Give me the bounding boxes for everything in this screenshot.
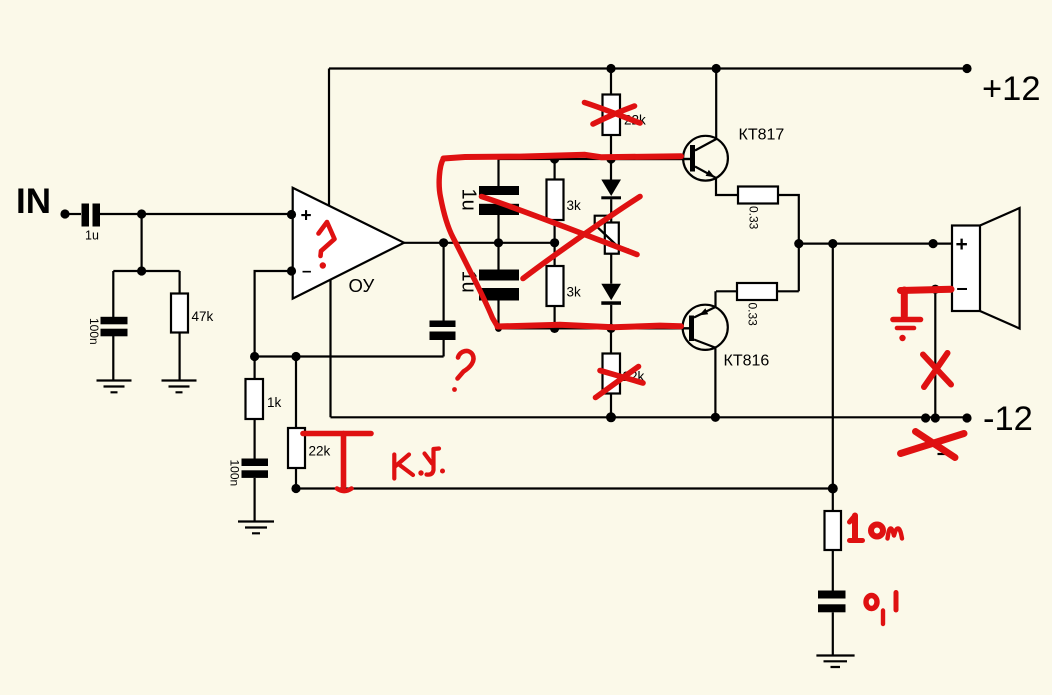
wire - input to feedback node: [255, 271, 292, 357]
wire speaker minus to -12 rail: [935, 289, 952, 417]
wire 3k bottom to base line: [553, 306, 555, 328]
svg-text:+: +: [301, 206, 312, 227]
svg-text:1u: 1u: [85, 229, 99, 243]
wire 0.33 top to output: [778, 195, 799, 244]
wire 1 Ohm to 0,1 cap: [832, 550, 834, 591]
node Q1 rail junction: [712, 64, 721, 73]
wire IN to C1: [65, 213, 81, 215]
node 3k bottom junction: [550, 324, 559, 333]
diode D1: [610, 159, 612, 180]
capacitor C feedback (no label): [430, 321, 456, 328]
node rail junction pair: [921, 413, 930, 422]
svg-text:1u: 1u: [458, 189, 480, 211]
svg-text:КТ816: КТ816: [724, 353, 770, 370]
red stroke over speaker minus wire: [901, 289, 952, 290]
RED-ANNOT: [303, 103, 964, 625]
svg-text:0.33: 0.33: [746, 303, 760, 327]
wire to 100n and 47k: [113, 271, 179, 380]
capacitor C 100n feedback: [242, 459, 269, 467]
node IN terminal: [60, 209, 69, 218]
svg-text:3k: 3k: [567, 198, 582, 213]
wire 100n to ground: [254, 478, 256, 521]
red X stroke middle 1: [482, 197, 638, 255]
svg-text:100n: 100n: [87, 318, 101, 345]
node Q2 rail junction: [711, 413, 720, 422]
red loop left side: [439, 159, 497, 327]
svg-text:0.33: 0.33: [747, 206, 761, 230]
wire output to feedback cap: [443, 243, 445, 357]
red question mark at feedback cap: [458, 351, 474, 379]
svg-text:+: +: [956, 233, 968, 256]
node diode chain bottom: [606, 324, 615, 333]
resistor R 0.33 bottom: [737, 283, 777, 300]
resistor R 47k: [171, 294, 188, 333]
node op-amp - input: [287, 266, 296, 275]
wire output row: [799, 243, 952, 245]
red stroke along bottom base line: [498, 325, 682, 328]
wire C1 to op-amp + input: [100, 213, 292, 215]
transistor Q2 KT816: [683, 305, 728, 350]
resistor R 3k bottom: [547, 266, 564, 306]
svg-text:47k: 47k: [192, 309, 214, 324]
node junction RC: [137, 266, 146, 275]
wire bottom base line: [499, 327, 692, 329]
node diode chain top: [606, 154, 615, 163]
resistor R 3k top: [553, 159, 555, 180]
resistor R 22k feedback: [295, 357, 297, 429]
red X over speaker minus wire: [923, 355, 951, 385]
red T gain mark: [303, 431, 371, 437]
transistor Q1 KT817: [715, 69, 717, 140]
node +12 terminal: [962, 64, 971, 73]
node 3k top junction: [550, 154, 559, 163]
node output down junction: [828, 239, 837, 248]
resistor R 1 Ohm: [832, 489, 834, 512]
svg-text:22k: 22k: [309, 444, 331, 459]
node 3k mid junction: [550, 238, 559, 247]
red text 0,1: [866, 596, 877, 609]
svg-text:+12: +12: [982, 70, 1041, 108]
speaker LS1: [952, 226, 980, 312]
op-amp U1 OU: [293, 188, 404, 299]
node output to 1u caps: [494, 238, 503, 247]
svg-text:100n: 100n: [228, 460, 242, 487]
diode D2: [601, 284, 621, 301]
wire 0.33 bottom to Q2 emitter: [716, 291, 738, 307]
red question mark in op-amp: [319, 222, 335, 256]
svg-text:IN: IN: [16, 182, 51, 221]
node small corner bottom: [495, 325, 502, 332]
wire bottom feedback line: [296, 487, 833, 489]
node +12 rail (top supply wire): [329, 67, 967, 69]
wire trimmer to D2: [610, 254, 612, 284]
node feedback junction A: [250, 352, 259, 361]
node output junction at 0.33: [794, 239, 803, 248]
wire 0.33 bottom to output: [777, 244, 799, 292]
red X over 22k top: [585, 103, 641, 124]
svg-text:–: –: [302, 261, 311, 280]
svg-text:-12: -12: [983, 400, 1033, 438]
node -12 rail (bottom supply wire): [331, 416, 968, 418]
red X over 22k bottom: [596, 367, 639, 398]
node -12 terminal: [962, 413, 971, 422]
node feedback junction B: [291, 352, 300, 361]
wire top base line: [499, 158, 692, 160]
node speaker plus mystery junction: [929, 239, 938, 248]
resistor R 1k: [254, 357, 256, 380]
node 22k bottom rail junction: [606, 412, 616, 422]
wire op-amp output: [404, 242, 555, 244]
node op-amp + input: [287, 210, 296, 219]
ground under 100n input: [97, 381, 132, 393]
wire feedback node line: [255, 355, 444, 357]
red text K.U.: [392, 455, 396, 479]
node feedback bottom junction: [291, 484, 300, 493]
node junction input: [137, 209, 146, 218]
node bottom feedback junction at 1 Ohm: [828, 484, 838, 494]
wire D1 to trimmer: [610, 199, 612, 222]
node 22k top rail junction: [606, 64, 615, 73]
red text 1 Ohm: [852, 516, 858, 540]
trimmer RP (crossed out): [605, 223, 619, 254]
node speaker minus junction: [931, 285, 940, 294]
svg-text:1k: 1k: [267, 395, 282, 410]
capacitor C 100n input: [101, 317, 128, 325]
capacitor C 1u bottom: [479, 270, 519, 281]
capacitor C 1u input: [82, 204, 90, 227]
wire op-amp V- pin to -12 rail: [329, 280, 331, 417]
svg-text:КТ817: КТ817: [739, 127, 785, 144]
resistor R 22k bottom (crossed out): [610, 328, 612, 353]
red ground symbol: [893, 317, 921, 323]
svg-text:3k: 3k: [567, 285, 582, 300]
resistor R 0.33 top: [738, 187, 778, 204]
wire 22k to bottom feedback line: [295, 468, 297, 489]
node output tap: [439, 238, 448, 247]
ground under 100n feedback: [238, 522, 274, 534]
wire 1u bottom branch: [497, 243, 499, 329]
red X over -12 rail ground: [916, 432, 956, 458]
ground under 47k: [162, 381, 197, 393]
svg-text:–: –: [957, 278, 968, 300]
wire 1k to 100n: [254, 419, 256, 459]
red X stroke middle 2: [523, 197, 640, 279]
capacitor C 1u top: [479, 186, 519, 195]
wire 3k mid: [553, 220, 555, 266]
wire output down to 1 Ohm: [832, 244, 834, 489]
capacitor C 0,1: [818, 591, 846, 599]
red corner down: [901, 290, 908, 316]
ground remnant tick under rail: [938, 453, 951, 455]
wire 1u top branch: [497, 159, 499, 243]
red stroke along top base line: [444, 155, 682, 159]
resistor R 22k top (crossed out): [610, 69, 612, 95]
wire junction down: [141, 214, 143, 271]
wire 0,1 to ground: [832, 612, 834, 655]
svg-text:ОУ: ОУ: [349, 275, 375, 296]
wire op-amp V+ pin to +12 rail: [328, 69, 330, 207]
ground main: [816, 656, 854, 668]
